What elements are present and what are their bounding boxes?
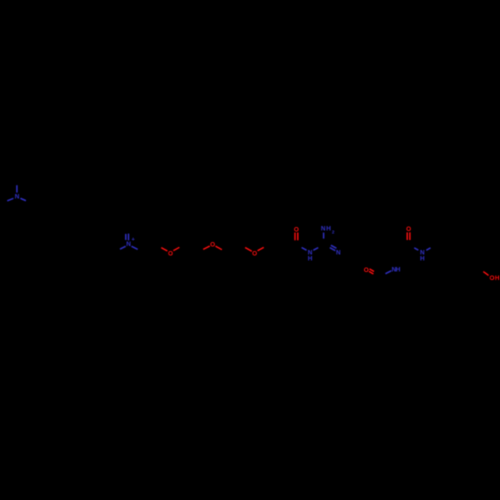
svg-text:H: H [420, 256, 425, 263]
svg-text:N: N [321, 226, 326, 233]
svg-text:H: H [495, 275, 500, 282]
svg-text:H: H [396, 267, 401, 274]
svg-text:O: O [168, 250, 173, 257]
svg-text:O: O [294, 227, 299, 234]
svg-text:O: O [490, 275, 495, 282]
svg-text:N: N [336, 249, 341, 256]
svg-text:O: O [406, 226, 411, 233]
svg-text:O: O [364, 267, 369, 274]
svg-text:O: O [210, 242, 215, 249]
svg-text:H: H [308, 256, 313, 263]
svg-text:H: H [326, 226, 331, 233]
svg-text:O: O [252, 250, 257, 257]
svg-text:N: N [126, 241, 131, 248]
svg-text:2: 2 [332, 229, 335, 234]
svg-text:N: N [15, 193, 20, 200]
